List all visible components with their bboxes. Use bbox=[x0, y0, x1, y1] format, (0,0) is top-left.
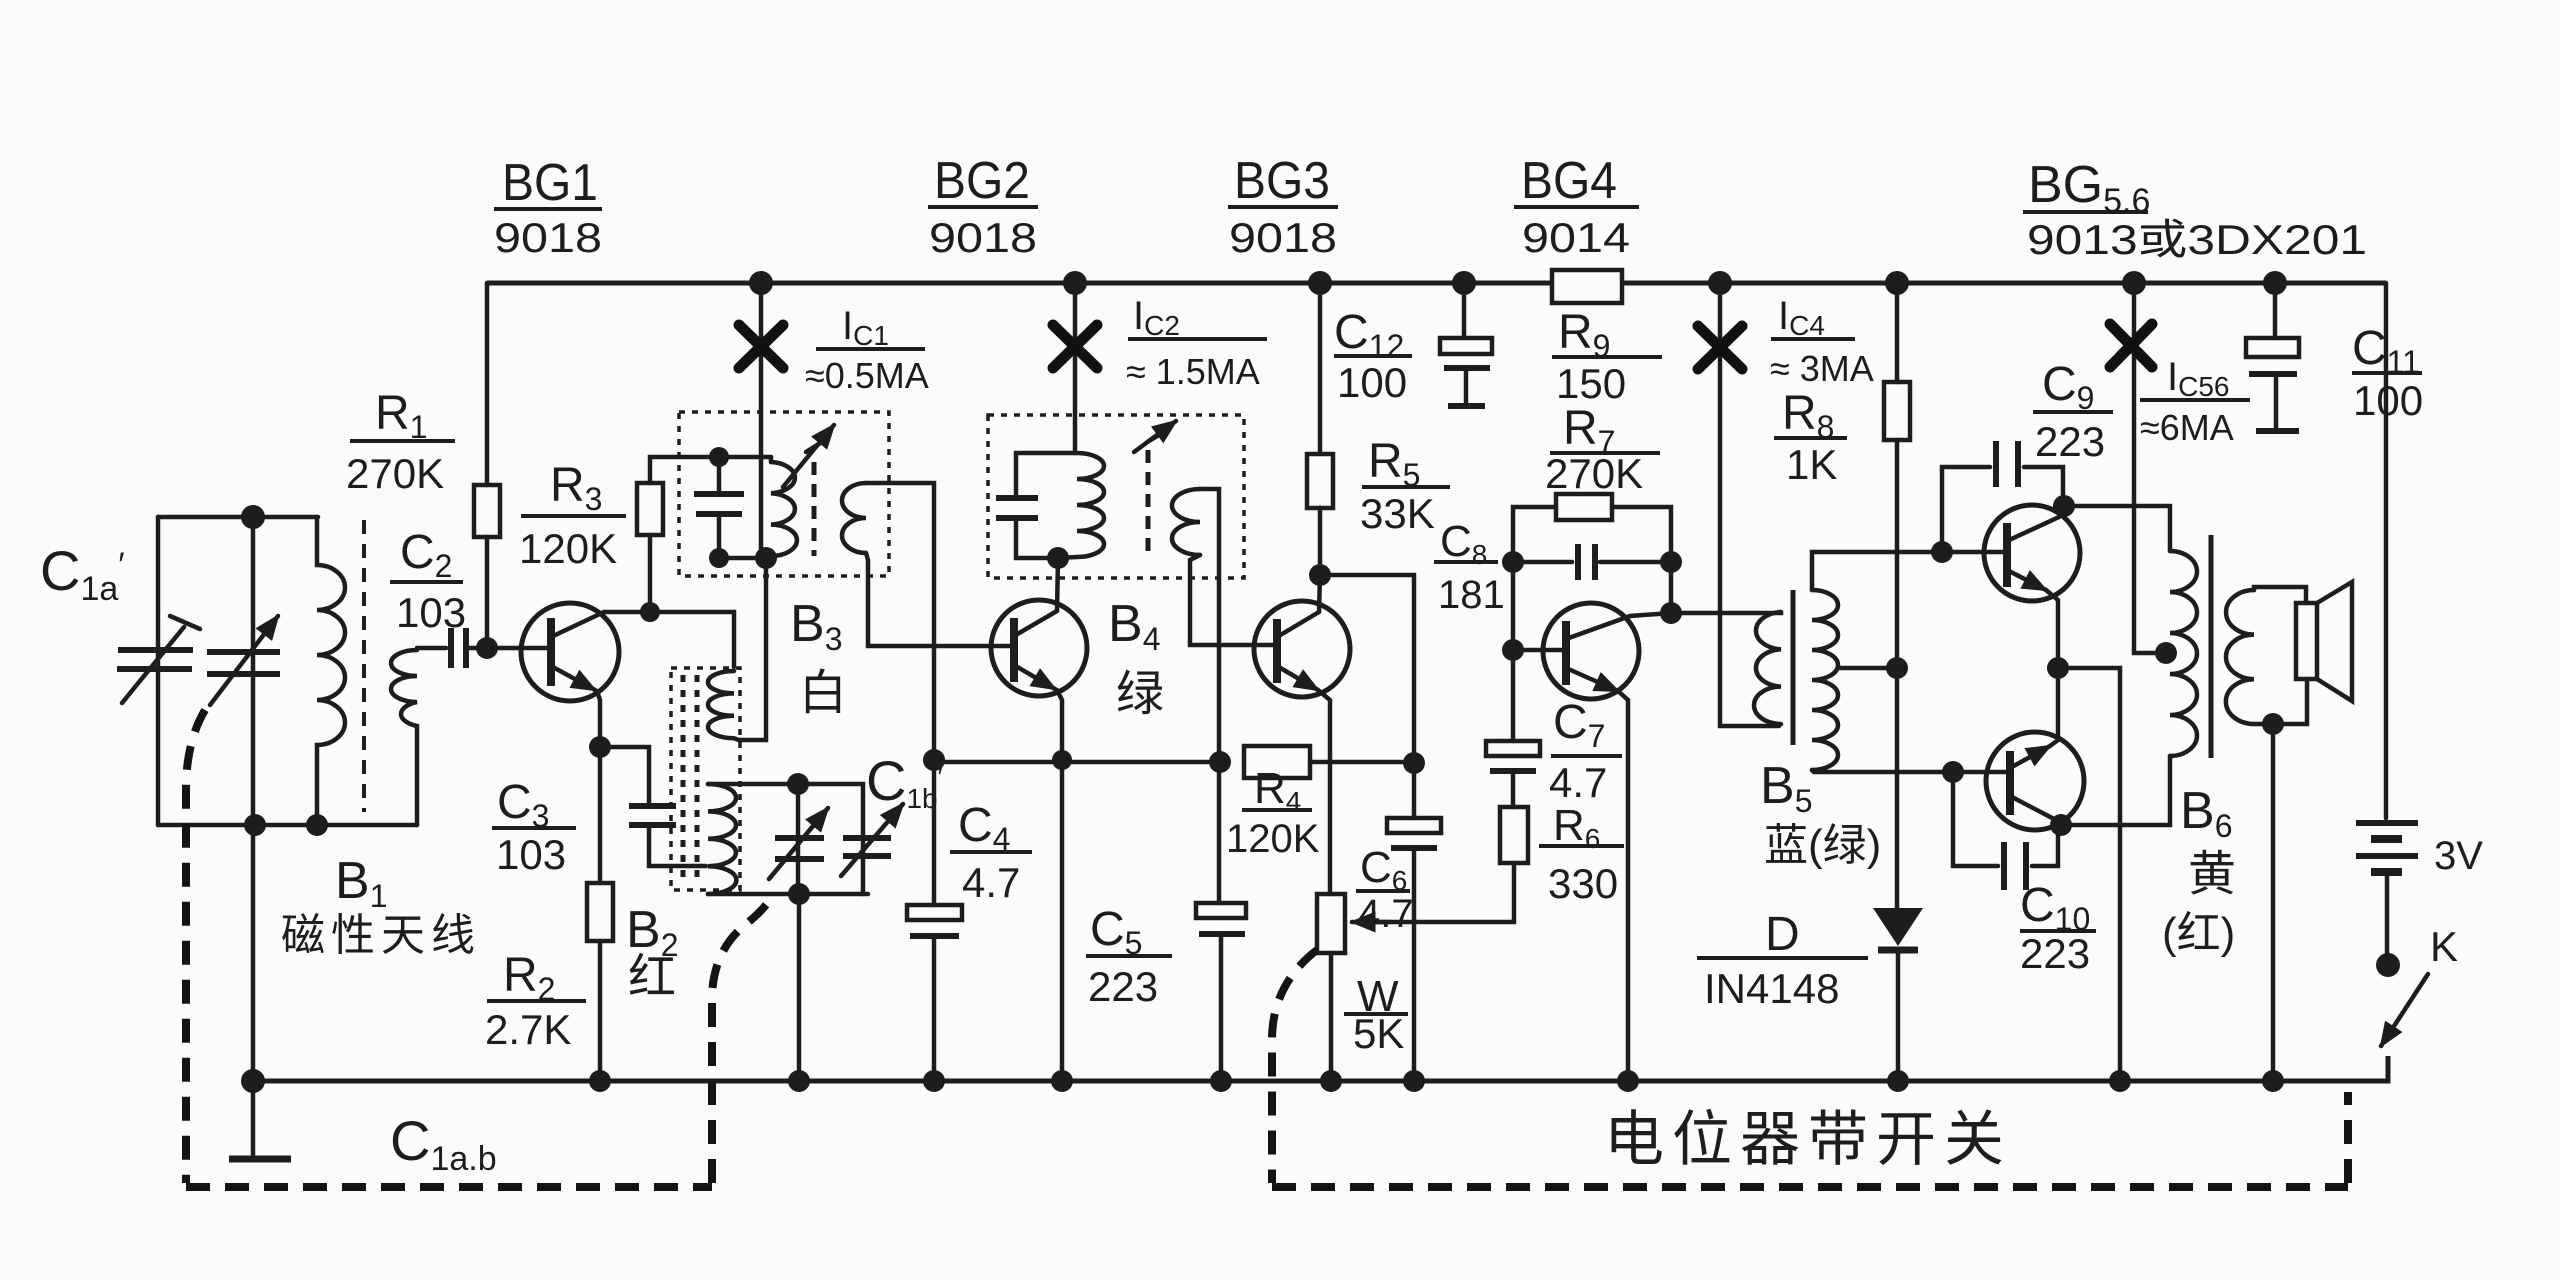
svg-text:B3: B3 bbox=[790, 595, 842, 657]
variable capacitor C1b' plates bbox=[843, 835, 891, 841]
bottom ground rail bbox=[253, 1056, 2388, 1081]
node bias C4 bbox=[923, 749, 945, 771]
wire rail to R5 bbox=[1318, 283, 1323, 454]
svg-text:9018: 9018 bbox=[494, 214, 602, 261]
node top rail R5 bbox=[1308, 271, 1332, 295]
svg-text:C2: C2 bbox=[400, 526, 452, 584]
capacitor C6 bbox=[1412, 763, 1417, 818]
battery 3V bbox=[2356, 820, 2418, 826]
node B4 winding bottom bbox=[1047, 547, 1069, 569]
wire BG4 collector to B5 bbox=[1630, 612, 1781, 616]
svg-text:C3: C3 bbox=[497, 776, 549, 834]
wire tank bottom bbox=[708, 892, 868, 897]
svg-text:IN4148: IN4148 bbox=[1704, 965, 1839, 1012]
wire IC2 drop bbox=[1073, 283, 1078, 453]
node C8 left bbox=[1502, 551, 1524, 573]
node C5 ground bbox=[1210, 1070, 1232, 1092]
wire B5 secondary top to BG5 base bbox=[1812, 552, 2007, 590]
node BG1 base bbox=[476, 637, 498, 659]
node C6 ground bbox=[1403, 1070, 1425, 1092]
node BG4 emitter ground bbox=[1617, 1070, 1639, 1092]
svg-text:181: 181 bbox=[1438, 573, 1505, 617]
wire BG5 emitter to mid node bbox=[2046, 590, 2058, 668]
capacitor C7 bbox=[1511, 650, 1516, 741]
B3 dotted box bbox=[679, 412, 889, 576]
node B3 cap top bbox=[709, 447, 729, 467]
svg-text:R3: R3 bbox=[550, 459, 602, 517]
svg-text:D: D bbox=[1765, 908, 1800, 961]
node BG3 collector bbox=[1309, 564, 1331, 586]
svg-text:2.7K: 2.7K bbox=[485, 1006, 571, 1053]
svg-text:≈ 1.5MA: ≈ 1.5MA bbox=[1126, 351, 1260, 392]
node gang top bbox=[241, 505, 265, 529]
transistor BG4 bbox=[1543, 603, 1639, 699]
node mid ground bbox=[2109, 1070, 2131, 1092]
wire BG2 emitter down bbox=[1057, 690, 1062, 1081]
svg-text:223: 223 bbox=[2035, 418, 2105, 465]
node diode ground bbox=[1887, 1070, 1909, 1092]
svg-text:C5: C5 bbox=[1090, 903, 1142, 961]
node C4 ground bbox=[923, 1070, 945, 1092]
svg-text:3V: 3V bbox=[2434, 834, 2483, 878]
svg-text:B6: B6 bbox=[2180, 782, 2232, 844]
svg-text:C1a.b: C1a.b bbox=[390, 1109, 497, 1178]
svg-text:120K: 120K bbox=[1226, 817, 1320, 861]
svg-text:B5: B5 bbox=[1760, 757, 1812, 819]
B5 primary winding bbox=[1754, 612, 1781, 724]
svg-text:BG1: BG1 bbox=[502, 154, 598, 212]
B1 core (dashed) bbox=[362, 520, 366, 812]
node top rail IC4 bbox=[1708, 271, 1732, 295]
svg-text:BG2: BG2 bbox=[934, 152, 1030, 210]
B4 dotted box bbox=[988, 415, 1244, 578]
node B5 tap bbox=[1886, 657, 1908, 679]
B5 core bbox=[1791, 590, 1796, 745]
svg-text:≈6MA: ≈6MA bbox=[2140, 407, 2234, 448]
wire IC4 drop bbox=[1720, 283, 1779, 726]
svg-text:BG3: BG3 bbox=[1234, 152, 1330, 210]
wire rail down to R1 bbox=[485, 283, 490, 485]
gang link W switch bbox=[1272, 950, 1317, 1183]
svg-text:33K: 33K bbox=[1360, 490, 1435, 537]
svg-text:C4: C4 bbox=[958, 799, 1010, 857]
variable capacitor C1b plates bbox=[775, 835, 824, 841]
B3 tuning arrow bbox=[783, 425, 834, 487]
wire C8/R7 right bracket bbox=[1612, 507, 1671, 613]
svg-text:9014: 9014 bbox=[1522, 214, 1630, 261]
svg-text:B4: B4 bbox=[1108, 595, 1160, 657]
wire tank bottom to ground rail bbox=[797, 894, 802, 1081]
node BG5 collector bbox=[2053, 495, 2075, 517]
resistor R5 bbox=[1307, 454, 1333, 508]
wire collector node to C6 node bbox=[1320, 575, 1414, 763]
speaker bbox=[2296, 603, 2317, 679]
wire: right supply drop to battery bbox=[2384, 283, 2389, 818]
svg-text:270K: 270K bbox=[346, 450, 444, 497]
wire W to ground rail bbox=[1329, 953, 1334, 1081]
transistor BG2 bbox=[991, 600, 1087, 696]
potentiometer W wiper arrow bbox=[1372, 863, 1514, 922]
node top rail IC1 bbox=[749, 271, 773, 295]
wire B1 secondary to C2 bbox=[417, 646, 446, 651]
node BG6 collector bbox=[2050, 814, 2072, 836]
antenna coil B1 primary bbox=[317, 517, 345, 825]
svg-text:BG4: BG4 bbox=[1521, 152, 1617, 210]
wire B4 secondary bottom to BG3 base bbox=[1190, 555, 1277, 645]
node B6 tap bbox=[2155, 642, 2177, 664]
wire C8 left bracket bbox=[1513, 507, 1556, 650]
variable capacitor C1b arrow bbox=[769, 808, 828, 879]
ground bbox=[251, 1081, 256, 1157]
svg-text:IC4: IC4 bbox=[1778, 294, 1825, 341]
svg-text:100: 100 bbox=[2353, 377, 2423, 424]
svg-text:103: 103 bbox=[396, 589, 466, 636]
svg-text:绿: 绿 bbox=[1116, 668, 1164, 721]
B6 secondary winding bbox=[2226, 590, 2254, 724]
switch K blade bbox=[2381, 974, 2428, 1046]
transistor BG6 bbox=[1986, 732, 2084, 830]
wire B6 primary bottom to BG6 collector bbox=[2061, 756, 2170, 825]
variable capacitor C1b' arrow bbox=[841, 804, 903, 876]
node BG2 emitter ground bbox=[1051, 1070, 1073, 1092]
svg-text:150: 150 bbox=[1556, 360, 1626, 407]
B4 tuning arrow bbox=[1134, 421, 1176, 452]
svg-text:K: K bbox=[2430, 923, 2458, 970]
B4 secondary winding bbox=[1172, 489, 1200, 555]
svg-text:电位器带开关: 电位器带开关 bbox=[1604, 1106, 2012, 1173]
transistor BG5 bbox=[1984, 505, 2080, 601]
node bias R4 bbox=[1209, 751, 1231, 773]
svg-text:C10: C10 bbox=[2020, 879, 2090, 937]
antenna coil B1 secondary bbox=[391, 650, 417, 825]
svg-text:4.7: 4.7 bbox=[1358, 892, 1414, 936]
wire R3 top feed bbox=[650, 457, 771, 483]
B2 secondary winding bbox=[708, 784, 736, 894]
svg-text:9018: 9018 bbox=[1229, 214, 1337, 261]
wire B4 secondary top lead down bbox=[1200, 489, 1219, 760]
wire middle drop of gang bbox=[251, 517, 256, 825]
resistor R6 bbox=[1500, 807, 1528, 863]
node tank top bbox=[787, 773, 809, 795]
potentiometer W bbox=[1317, 894, 1345, 953]
wire emitter node to C3 bbox=[600, 747, 649, 805]
svg-text:R5: R5 bbox=[1368, 435, 1420, 493]
svg-text:≈ 3MA: ≈ 3MA bbox=[1770, 348, 1874, 389]
test point X IC2 bbox=[1053, 325, 1097, 368]
node BG5 base bbox=[1931, 541, 1953, 563]
svg-text:IC56: IC56 bbox=[2167, 355, 2230, 402]
node R2 ground bbox=[589, 1070, 611, 1092]
svg-text:4.7: 4.7 bbox=[962, 859, 1020, 906]
node gang bottom mid bbox=[244, 814, 266, 836]
svg-text:C1a′: C1a′ bbox=[40, 539, 125, 608]
B2 primary winding bbox=[708, 671, 739, 740]
svg-text:黄: 黄 bbox=[2188, 848, 2236, 901]
wire tap node to diode bbox=[1895, 668, 1900, 908]
capacitor C12 bbox=[1462, 283, 1467, 338]
node B3 winding bottom bbox=[755, 547, 777, 569]
transistor BG3 bbox=[1254, 601, 1350, 697]
svg-text:1K: 1K bbox=[1786, 441, 1837, 488]
wire BG3 emitter down bbox=[1318, 690, 1330, 894]
variable capacitor C1a section 2 arrow bbox=[210, 616, 278, 705]
capacitor C11 bbox=[2273, 283, 2278, 338]
svg-text:9013或3DX201: 9013或3DX201 bbox=[2027, 216, 2367, 263]
wire R5 to BG3 collector bbox=[1319, 508, 1320, 612]
wire gang mid down to ground rail bbox=[251, 825, 256, 1081]
wire BG6 emitter up to mid node bbox=[2050, 668, 2058, 746]
emitter bias bus wire bbox=[934, 759, 1221, 762]
node BG4 base bbox=[1502, 639, 1524, 661]
wire speaker return to ground rail bbox=[2271, 724, 2276, 1081]
wire B2 secondary top to tank bbox=[708, 784, 863, 894]
test point X IC4 bbox=[1698, 326, 1742, 369]
wire B3 coupling bottom to BG2 base bbox=[866, 553, 1014, 646]
diode D IN4148 bbox=[1873, 908, 1923, 946]
variable capacitor C1a section 1 arrow bbox=[122, 627, 184, 703]
resistor R9 (in rail) bbox=[1552, 270, 1622, 303]
B6 core bbox=[2209, 535, 2214, 758]
svg-text:蓝(绿): 蓝(绿) bbox=[1764, 821, 1881, 870]
test point X IC56 bbox=[2110, 324, 2152, 367]
capacitor C3 bbox=[629, 803, 676, 809]
node W ground bbox=[1320, 1070, 1342, 1092]
B4 core dashed bbox=[1146, 450, 1151, 560]
node R3 bottom junction bbox=[640, 602, 660, 622]
svg-text:磁性天线: 磁性天线 bbox=[281, 911, 481, 960]
capacitor inside B3 box bbox=[717, 457, 722, 492]
capacitor C5 bbox=[1217, 760, 1222, 903]
wire BG6 collector bbox=[2056, 820, 2061, 825]
resistor R3 bbox=[637, 483, 663, 535]
capacitor C2 bbox=[448, 628, 454, 668]
node gang bottom B1 bbox=[306, 814, 328, 836]
svg-text:223: 223 bbox=[1088, 963, 1158, 1010]
svg-text:R2: R2 bbox=[503, 949, 555, 1007]
node tank ground bbox=[788, 1070, 810, 1092]
svg-text:270K: 270K bbox=[1545, 450, 1643, 497]
node C6 top bbox=[1403, 752, 1425, 774]
svg-text:103: 103 bbox=[496, 831, 566, 878]
wire B2 primary bottom to IC1 node bbox=[739, 561, 766, 740]
node tank bottom bbox=[788, 883, 810, 905]
transistor BG1 bbox=[521, 603, 619, 701]
wire var cap C1b lead bbox=[796, 784, 801, 894]
wire top of tuning gang frame bbox=[158, 515, 318, 520]
B2 core dotted lines bbox=[681, 675, 686, 884]
svg-text:C9: C9 bbox=[2042, 358, 2094, 416]
wire R1 to base node bbox=[485, 537, 490, 648]
wire B3 bottom link bbox=[719, 556, 766, 561]
wire R3 bottom to collector wire bbox=[648, 535, 653, 612]
node output mid bbox=[2047, 657, 2069, 679]
wire left side of gang bbox=[156, 517, 161, 825]
node speaker ground bbox=[2262, 1070, 2284, 1092]
B2 dotted box bbox=[671, 668, 740, 890]
wire B5 secondary bottom to BG6 base bbox=[1812, 770, 2010, 772]
node top rail C11 bbox=[2263, 271, 2287, 295]
wire B3 coupling top to bias node bbox=[866, 483, 934, 759]
wire gang bottom bbox=[158, 823, 417, 828]
wire mid node to ground rail bbox=[2058, 668, 2120, 1081]
wire rail to R8 bbox=[1895, 283, 1900, 382]
capacitor C8 bbox=[1513, 560, 1572, 565]
node speaker return bbox=[2262, 713, 2284, 735]
wire BG5 collector to B6 bbox=[2059, 506, 2170, 551]
svg-text:120K: 120K bbox=[519, 525, 617, 572]
capacitor C9 bbox=[1942, 467, 1990, 552]
wire BG2 collector up to B4 bbox=[1057, 558, 1058, 611]
svg-text:IC2: IC2 bbox=[1133, 294, 1180, 341]
svg-text:B1: B1 bbox=[335, 852, 387, 914]
svg-text:C7: C7 bbox=[1553, 696, 1605, 754]
node top rail IC2 bbox=[1063, 271, 1087, 295]
node B3 cap bottom bbox=[709, 548, 729, 568]
wire BG1 collector to B2 bbox=[604, 612, 734, 667]
svg-text:5K: 5K bbox=[1353, 1010, 1404, 1057]
node top rail C12 bbox=[1452, 271, 1476, 295]
node top rail R8 bbox=[1885, 271, 1909, 295]
variable capacitor C1a section 1 plates bbox=[118, 647, 193, 653]
wire B6 secondary bottom to speaker bbox=[2254, 679, 2307, 724]
svg-text:4.7: 4.7 bbox=[1549, 759, 1607, 806]
capacitor inside B4 box bbox=[1016, 453, 1076, 496]
resistor R8 bbox=[1884, 382, 1910, 440]
node BG4 collector bbox=[1660, 602, 1682, 624]
gang link C1a bbox=[186, 710, 205, 1183]
node BG1 emitter bbox=[589, 736, 611, 758]
test point X IC1 bbox=[739, 325, 783, 368]
svg-text:330: 330 bbox=[1548, 860, 1618, 907]
resistor R2 bbox=[587, 883, 613, 941]
svg-text:IC1: IC1 bbox=[842, 304, 889, 351]
node BG2 emitter bias bbox=[1052, 750, 1072, 770]
svg-text:≈0.5MA: ≈0.5MA bbox=[805, 355, 929, 396]
resistor R1 bbox=[474, 485, 500, 537]
wire BG1 emitter down bbox=[597, 691, 600, 747]
B6 primary winding bbox=[2170, 551, 2197, 756]
node C8 right bbox=[1660, 551, 1682, 573]
svg-text:9018: 9018 bbox=[929, 214, 1037, 261]
wire BG4 emitter to ground bbox=[1618, 691, 1628, 1081]
svg-text:(红): (红) bbox=[2162, 909, 2235, 958]
node ground rail left end bbox=[241, 1069, 265, 1093]
variable capacitor C1a section 2 plates bbox=[207, 649, 280, 655]
svg-text:100: 100 bbox=[1337, 359, 1407, 406]
capacitor C10 bbox=[1953, 772, 1998, 866]
svg-text:R1: R1 bbox=[375, 387, 427, 445]
B4 primary winding bbox=[1077, 453, 1104, 557]
svg-text:红: 红 bbox=[628, 951, 676, 1004]
resistor R7 bbox=[1556, 494, 1612, 520]
node BG6 base bbox=[1942, 761, 1964, 783]
wire base node to BG1 bbox=[487, 646, 551, 651]
capacitor C4 bbox=[932, 762, 937, 905]
wire R4 to C6 node bbox=[1310, 760, 1414, 765]
B3 coupling winding bbox=[842, 483, 866, 553]
top supply rail bbox=[487, 281, 2386, 286]
wire B6 secondary top to speaker bbox=[2254, 587, 2306, 603]
B3 core dashed bbox=[812, 462, 817, 556]
wire B5 center tap bbox=[1838, 666, 1897, 671]
wire R8 to tap node bbox=[1895, 440, 1900, 668]
resistor R4 bbox=[1244, 746, 1310, 778]
wire emitter node to R2 bbox=[598, 747, 603, 883]
wire R2 to ground rail bbox=[598, 941, 603, 1081]
svg-text:白: 白 bbox=[799, 667, 847, 720]
wire BG4 base bbox=[1513, 648, 1566, 653]
wire IC56 drop to B6 tap bbox=[2134, 283, 2164, 653]
wire IC1 drop bbox=[761, 283, 766, 561]
svg-text:223: 223 bbox=[2020, 930, 2090, 977]
node top rail IC56 bbox=[2122, 271, 2146, 295]
B3 oscillator winding bbox=[771, 462, 797, 556]
B5 secondary winding bbox=[1812, 590, 1838, 770]
